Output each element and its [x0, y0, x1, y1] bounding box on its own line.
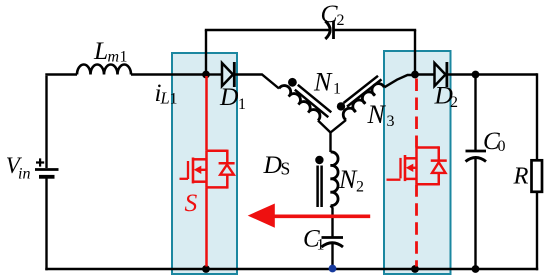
wire: node A up to top rail	[205, 30, 207, 75]
synchronous switch gate lead	[387, 179, 401, 181]
switch S bottom tee	[207, 186, 228, 189]
node: bottom rail dot S cell	[202, 265, 210, 273]
wire: node B to diode D2	[415, 73, 434, 75]
svg-text:L: L	[93, 36, 108, 65]
diode D2 cathode bar	[445, 62, 448, 87]
svg-text:D: D	[219, 82, 239, 111]
winding N1 polarity dot	[288, 78, 297, 87]
switch S arrow shaft	[200, 169, 207, 171]
wire: top rail right of C2	[335, 29, 417, 31]
synchronous switch arrow shaft	[411, 167, 417, 169]
wire: Y-center down to N2	[329, 132, 331, 153]
synchronous switch body-diode branch lower	[438, 173, 441, 186]
svg-text:N: N	[338, 165, 358, 194]
switch S source stub	[193, 180, 207, 183]
synchronous switch bottom tee	[417, 183, 439, 186]
switch S drain stub	[193, 158, 207, 161]
wire: C1 to bottom rail	[331, 244, 333, 270]
resistor R body	[532, 160, 543, 192]
synchronous switch body-diode triangle	[432, 162, 446, 173]
winding N2 polarity dot	[315, 156, 323, 164]
wire: Y-center to N3	[331, 120, 347, 133]
wire: N1 to Y-center	[318, 121, 331, 133]
svg-text:1: 1	[333, 81, 341, 98]
node B dot	[411, 71, 419, 79]
svg-text:N: N	[313, 68, 333, 97]
capacitor C2 straight plate	[332, 21, 335, 39]
switch S body-diode cathode bar	[219, 162, 235, 165]
diode D1 triangle	[222, 63, 233, 86]
capacitor C2 curved plate	[325, 21, 330, 39]
wire: N3 to node B	[384, 75, 415, 87]
svg-text:R: R	[513, 163, 529, 190]
switch S gate bar	[187, 161, 189, 179]
wire: left vertical rail (Vin branch)	[45, 76, 47, 168]
wire: top-left horizontal to inductor	[45, 73, 77, 75]
synchronous switch arrow head	[406, 164, 414, 172]
switch S channel bar	[192, 158, 195, 184]
winding N1 core lines	[295, 85, 332, 117]
switch cell box S (left)	[172, 53, 237, 274]
winding N2 coil	[331, 152, 339, 206]
svg-text:S: S	[185, 188, 198, 217]
svg-text:2: 2	[337, 12, 345, 29]
battery Vin short plate	[39, 175, 55, 179]
svg-text:L: L	[160, 88, 170, 107]
capacitor C0 curved plate	[466, 158, 487, 162]
wire: left rail below battery to bottom rail	[45, 179, 47, 271]
switch S top tee	[207, 150, 228, 153]
svg-text:1: 1	[120, 49, 128, 66]
diode D2 triangle	[435, 63, 446, 86]
synchronous switch body-diode branch upper	[438, 146, 441, 161]
battery Vin plus sign	[36, 158, 44, 166]
wire: resistor R to bottom rail	[536, 193, 538, 271]
svg-text:2: 2	[356, 179, 364, 196]
switch S source wire (red solid)	[205, 187, 208, 266]
svg-text:m: m	[108, 49, 120, 66]
switch S arrow head	[194, 166, 202, 174]
node: output dot	[472, 71, 480, 79]
battery Vin long plate	[35, 168, 59, 171]
wire: C0 branch vertical top	[474, 75, 476, 152]
synchronous switch dashed source wire (red)	[415, 184, 418, 266]
diode D1 cathode bar	[233, 62, 236, 87]
svg-text:D: D	[263, 150, 283, 179]
wire: C0 branch vertical bottom	[474, 158, 476, 269]
switch S body-diode triangle	[220, 165, 234, 175]
svg-text:S: S	[281, 159, 291, 179]
wire: bottom rail	[45, 268, 538, 271]
wire: D1 to N1 winding	[235, 75, 279, 89]
capacitor C1 curved plate	[322, 243, 344, 247]
switch S body-diode branch lower	[226, 175, 229, 189]
svg-text:1: 1	[238, 96, 246, 113]
svg-text:0: 0	[498, 138, 506, 155]
synchronous switch gate bar	[399, 158, 401, 179]
wire: top rail left of C2	[205, 29, 330, 31]
svg-text:2: 2	[450, 94, 458, 111]
svg-text:1: 1	[170, 90, 178, 107]
winding N3 core lines	[344, 76, 382, 107]
wire: D2 to output node	[448, 73, 537, 75]
winding N2 core lines	[318, 166, 322, 208]
wire: node A to diode D1	[206, 73, 222, 75]
capacitor C1 straight plate	[322, 236, 344, 239]
winding N3 polarity dot	[337, 102, 345, 110]
switch S MOSFET body vertical	[205, 151, 208, 188]
node: bottom rail dot right cell	[411, 265, 419, 273]
synchronous switch source stub	[405, 178, 417, 181]
winding N3 coil	[343, 84, 384, 120]
synchronous switch body-diode cathode bar	[431, 159, 447, 162]
svg-text:N: N	[367, 100, 387, 129]
switch cell box (right)	[384, 51, 451, 274]
svg-text:in: in	[18, 165, 30, 182]
svg-text:3: 3	[387, 113, 395, 130]
capacitor C0 straight plate	[466, 150, 487, 153]
synchronous switch MOSFET body vertical	[415, 148, 418, 185]
svg-text:1: 1	[317, 237, 325, 254]
synchronous switch channel bar	[404, 155, 407, 181]
switch S gate lead	[180, 178, 189, 180]
node: bottom rail dot C1 (blue)	[329, 265, 337, 273]
switch S drain wire (red solid)	[205, 76, 208, 151]
synchronous switch top tee	[417, 146, 439, 149]
synchronous switch drain stub	[405, 157, 417, 160]
node A dot	[202, 71, 210, 79]
wire: right rail down to resistor R	[536, 73, 538, 160]
winding N1 coil	[279, 86, 320, 121]
wire: inductor to node A	[131, 73, 206, 75]
wire: top rail down to node B	[414, 30, 416, 75]
current direction arrow (red, pointing left)	[274, 215, 370, 219]
node: bottom rail dot C0	[472, 265, 480, 273]
wire: N2 to C1	[331, 206, 333, 238]
switch S body-diode branch upper	[226, 150, 229, 164]
synchronous switch dashed drain wire (red)	[415, 79, 418, 148]
inductor Lm1	[77, 65, 131, 75]
